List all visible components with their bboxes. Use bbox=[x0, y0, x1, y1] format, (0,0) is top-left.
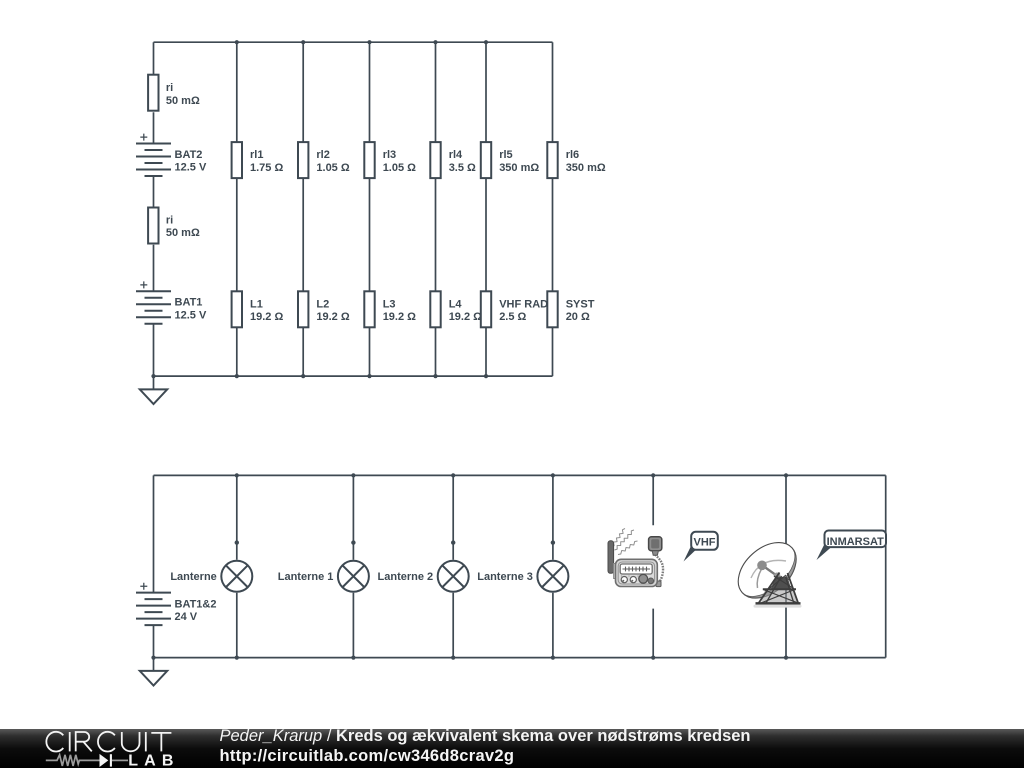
svg-text:VHF: VHF bbox=[694, 537, 716, 549]
svg-text:12.5 V: 12.5 V bbox=[175, 309, 207, 321]
svg-text:50 mΩ: 50 mΩ bbox=[166, 95, 200, 107]
svg-text:rl1: rl1 bbox=[250, 149, 263, 161]
svg-text:SYST: SYST bbox=[566, 298, 595, 310]
svg-text:50 mΩ: 50 mΩ bbox=[166, 227, 200, 239]
svg-text:BAT2: BAT2 bbox=[175, 149, 203, 161]
svg-text:Lanterne: Lanterne bbox=[170, 571, 216, 583]
svg-text:rl4: rl4 bbox=[449, 149, 463, 161]
svg-text:Lanterne 1: Lanterne 1 bbox=[278, 571, 334, 583]
svg-text:INMARSAT: INMARSAT bbox=[827, 536, 885, 548]
svg-text:Peder_Krarup / Kreds og ækviva: Peder_Krarup / Kreds og ækvivalent skema… bbox=[220, 727, 751, 745]
svg-text:3.5 Ω: 3.5 Ω bbox=[449, 162, 476, 174]
svg-text:24 V: 24 V bbox=[175, 611, 198, 623]
svg-text:rl5: rl5 bbox=[499, 149, 512, 161]
svg-text:BAT1&2: BAT1&2 bbox=[175, 598, 217, 610]
svg-text:rl2: rl2 bbox=[316, 149, 329, 161]
svg-text:L3: L3 bbox=[383, 298, 396, 310]
svg-text:rl3: rl3 bbox=[383, 149, 396, 161]
svg-text:BAT1: BAT1 bbox=[175, 297, 203, 309]
svg-text:rl6: rl6 bbox=[566, 149, 579, 161]
svg-text:19.2 Ω: 19.2 Ω bbox=[250, 311, 283, 323]
svg-text:1.05 Ω: 1.05 Ω bbox=[316, 162, 349, 174]
svg-text:Lanterne 2: Lanterne 2 bbox=[378, 571, 434, 583]
svg-text:20 Ω: 20 Ω bbox=[566, 311, 590, 323]
svg-text:1.05 Ω: 1.05 Ω bbox=[383, 162, 416, 174]
svg-text:350 mΩ: 350 mΩ bbox=[499, 162, 539, 174]
svg-text:12.5 V: 12.5 V bbox=[175, 162, 207, 174]
svg-text:L4: L4 bbox=[449, 298, 463, 310]
svg-text:VHF RAD: VHF RAD bbox=[499, 298, 548, 310]
svg-text:Lanterne 3: Lanterne 3 bbox=[477, 571, 533, 583]
svg-text:L2: L2 bbox=[316, 298, 329, 310]
svg-text:L1: L1 bbox=[250, 298, 263, 310]
svg-text:350 mΩ: 350 mΩ bbox=[566, 162, 606, 174]
svg-text:19.2 Ω: 19.2 Ω bbox=[316, 311, 349, 323]
svg-text:2.5 Ω: 2.5 Ω bbox=[499, 311, 526, 323]
svg-text:http://circuitlab.com/cw346d8c: http://circuitlab.com/cw346d8crav2g bbox=[220, 747, 515, 765]
svg-text:19.2 Ω: 19.2 Ω bbox=[383, 311, 416, 323]
svg-text:ri: ri bbox=[166, 82, 173, 94]
svg-text:19.2 Ω: 19.2 Ω bbox=[449, 311, 482, 323]
svg-text:LAB: LAB bbox=[128, 753, 179, 768]
svg-text:1.75 Ω: 1.75 Ω bbox=[250, 162, 283, 174]
svg-text:ri: ri bbox=[166, 215, 173, 227]
